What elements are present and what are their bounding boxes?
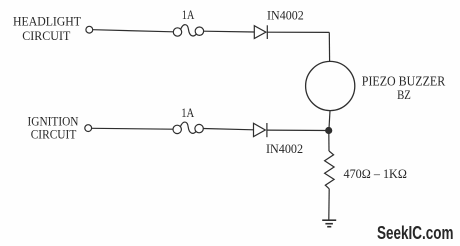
piezo buzzer BZ <box>306 61 355 110</box>
wire terminal to fuse F1 <box>93 30 173 32</box>
ground <box>322 220 336 227</box>
wire buzzer bottom to junction <box>329 111 330 131</box>
svg-text:HEADLIGHT: HEADLIGHT <box>13 14 81 29</box>
diode D1 <box>254 25 267 39</box>
svg-text:CIRCUIT: CIRCUIT <box>22 28 70 43</box>
svg-text:CIRCUIT: CIRCUIT <box>31 127 77 142</box>
svg-text:IN4002: IN4002 <box>266 141 303 156</box>
svg-text:IN4002: IN4002 <box>267 8 304 23</box>
wire terminal to fuse F2 <box>92 127 173 130</box>
resistor R1 <box>325 151 335 189</box>
wire fuse F2 to diode D2 <box>203 129 253 130</box>
fuse F1 1A <box>173 25 203 37</box>
wire diode D1 to corner <box>267 31 329 33</box>
svg-text:470Ω – 1KΩ: 470Ω – 1KΩ <box>344 166 407 181</box>
wire diode D2 to junction <box>267 129 329 131</box>
wire fuse F1 to diode D1 <box>204 30 255 33</box>
diode D2 <box>254 123 267 137</box>
fuse F2 1A <box>173 122 203 134</box>
terminal headlight input <box>86 26 93 33</box>
node IGNITION CIRCUIT label <box>28 114 80 142</box>
wire corner down to buzzer <box>328 32 330 61</box>
junction node <box>325 127 332 134</box>
wire resistor to ground <box>328 189 330 220</box>
wire junction to resistor R1 <box>328 131 330 152</box>
svg-text:1A: 1A <box>181 105 194 120</box>
svg-text:SeekIC.com: SeekIC.com <box>377 223 454 243</box>
svg-text:BZ: BZ <box>397 87 411 102</box>
node HEADLIGHT CIRCUIT label <box>13 14 81 43</box>
svg-text:1A: 1A <box>182 7 195 22</box>
terminal ignition input <box>85 125 92 132</box>
